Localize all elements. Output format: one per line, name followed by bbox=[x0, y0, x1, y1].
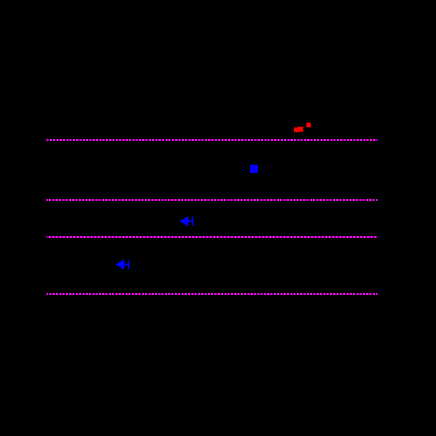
dashed magenta hline 3 (y=236.9, bolder) bbox=[47, 236, 378, 238]
dashed magenta hline 4 (y=293.4) bbox=[47, 293, 378, 295]
arrow 1 head bbox=[180, 216, 189, 226]
blue upper-limit arrow 2 (left-pointing, with end bar) bbox=[117, 260, 129, 269]
red point pair (overlapping squares) bbox=[294, 127, 303, 133]
dashed magenta hline 2 (y=199.4) bbox=[47, 199, 378, 201]
blue filled square point bbox=[250, 165, 258, 173]
arrow 2 head bbox=[115, 259, 124, 269]
blue upper-limit arrow 1 (left-pointing, with end bar) bbox=[181, 217, 193, 226]
dashed magenta hline 1 (y=139.4) bbox=[47, 139, 378, 141]
red point (single square) bbox=[306, 123, 311, 128]
